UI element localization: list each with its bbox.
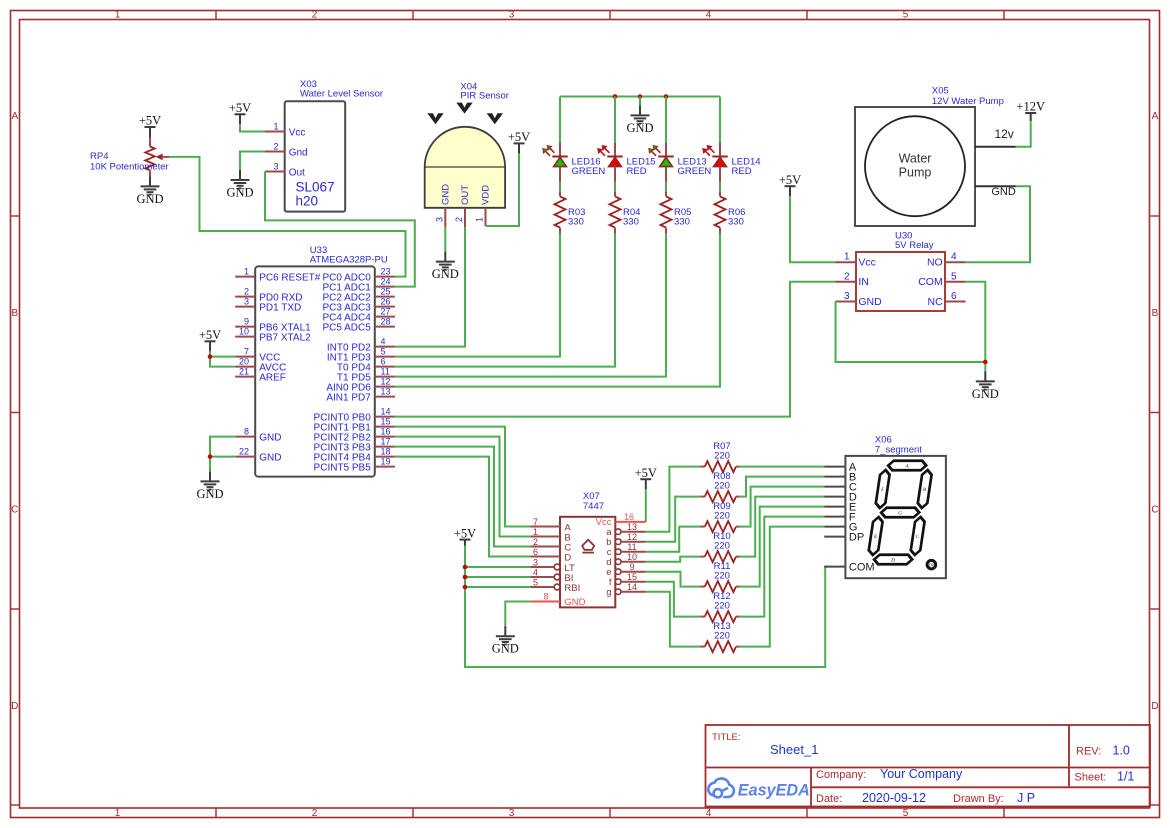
svg-text:8: 8 — [244, 427, 249, 437]
wire — [966, 186, 1030, 262]
wire — [1016, 121, 1031, 147]
resistor R04 330 — [610, 191, 641, 234]
display X06 7_segment — [824, 435, 946, 579]
decimal point (X06) — [927, 560, 936, 569]
svg-text:7447: 7447 — [583, 501, 604, 512]
svg-text:GND: GND — [259, 452, 281, 463]
svg-text:OUT: OUT — [460, 185, 471, 205]
wire — [646, 572, 701, 587]
svg-text:4: 4 — [381, 337, 386, 347]
wire — [790, 196, 836, 262]
junction — [208, 454, 213, 459]
svg-text:19: 19 — [381, 457, 391, 467]
svg-text:10: 10 — [627, 552, 637, 562]
svg-text:NO: NO — [927, 257, 943, 269]
relay U30 5V Relay — [836, 231, 966, 312]
wire — [465, 546, 828, 667]
svg-text:220: 220 — [714, 451, 730, 462]
svg-text:7: 7 — [533, 517, 538, 527]
svg-text:6: 6 — [951, 291, 957, 302]
svg-text:REV:: REV: — [1076, 746, 1101, 758]
svg-text:15: 15 — [627, 572, 637, 582]
ground (RP4) — [136, 176, 163, 206]
svg-text:3: 3 — [509, 10, 515, 21]
svg-text:+5V: +5V — [508, 130, 530, 144]
svg-text:1/1: 1/1 — [1117, 770, 1134, 784]
svg-text:220: 220 — [714, 481, 730, 492]
wire — [395, 437, 530, 537]
ground (U30) — [972, 371, 999, 401]
svg-text:GND: GND — [564, 597, 585, 608]
svg-text:5V Relay: 5V Relay — [895, 240, 934, 251]
sensor X03 Water Level Sensor — [265, 79, 383, 212]
svg-text:GND: GND — [858, 296, 882, 308]
wire — [486, 153, 520, 226]
svg-text:PCINT5 PB5: PCINT5 PB5 — [314, 462, 372, 473]
svg-text:C: C — [11, 504, 18, 515]
svg-text:COM: COM — [849, 561, 875, 573]
svg-text:D: D — [11, 701, 18, 712]
svg-text:PD1 TXD: PD1 TXD — [259, 302, 301, 313]
svg-text:220: 220 — [714, 631, 730, 642]
svg-text:3: 3 — [509, 808, 515, 819]
svg-text:GREEN: GREEN — [678, 166, 712, 177]
wire — [646, 497, 701, 542]
svg-text:4: 4 — [951, 252, 957, 263]
svg-text:3: 3 — [244, 297, 249, 307]
svg-text:10: 10 — [239, 327, 249, 337]
svg-text:10K Potentiometer: 10K Potentiometer — [90, 161, 169, 172]
svg-text:1.0: 1.0 — [1113, 744, 1130, 758]
wire — [740, 527, 824, 647]
wire — [265, 172, 415, 287]
svg-text:2: 2 — [273, 142, 278, 152]
svg-text:26: 26 — [381, 297, 391, 307]
svg-text:AIN1 PD7: AIN1 PD7 — [326, 392, 371, 403]
wire — [665, 182, 667, 191]
svg-text:11: 11 — [627, 542, 636, 552]
svg-text:6: 6 — [533, 547, 538, 557]
svg-text:1: 1 — [533, 527, 538, 537]
svg-text:IN: IN — [858, 276, 869, 288]
wire — [559, 97, 561, 143]
junction — [983, 360, 988, 365]
svg-text:1: 1 — [115, 808, 121, 819]
svg-text:21: 21 — [239, 367, 249, 377]
svg-text:330: 330 — [623, 217, 639, 228]
sensor X04 PIR Sensor — [425, 81, 509, 228]
svg-text:20: 20 — [239, 357, 249, 367]
svg-text:7_segment: 7_segment — [875, 444, 922, 455]
svg-text:GND: GND — [196, 487, 223, 501]
wire — [719, 182, 721, 191]
wire — [646, 557, 701, 562]
svg-text:1: 1 — [244, 267, 249, 277]
EasyEDA logo — [708, 778, 809, 799]
wire — [395, 234, 666, 377]
LED LED14 RED — [703, 142, 761, 182]
wire — [395, 447, 530, 547]
svg-text:C: C — [1151, 504, 1158, 515]
wire — [646, 592, 701, 647]
wire — [395, 427, 530, 527]
svg-text:PC6 RESET#: PC6 RESET# — [259, 272, 321, 283]
svg-text:RED: RED — [732, 166, 752, 177]
svg-text:18: 18 — [381, 447, 391, 457]
svg-text:8: 8 — [543, 592, 548, 602]
junction — [463, 575, 468, 580]
svg-text:1: 1 — [115, 10, 121, 21]
svg-text:23: 23 — [381, 267, 391, 277]
svg-text:16: 16 — [381, 427, 391, 437]
pin 13 a (X07) — [615, 529, 621, 535]
junction — [208, 354, 213, 359]
svg-text:3: 3 — [273, 162, 278, 172]
pin 8 GND (X07) — [530, 601, 560, 603]
power +5V (LT/BI/RBI bus) — [454, 526, 476, 546]
svg-text:COM: COM — [918, 276, 943, 288]
svg-text:NC: NC — [928, 296, 944, 308]
svg-text:PIR Sensor: PIR Sensor — [460, 90, 509, 101]
svg-text:TITLE:: TITLE: — [712, 732, 741, 743]
wire — [465, 576, 530, 578]
wire — [614, 97, 616, 143]
svg-text:12: 12 — [627, 532, 637, 542]
ground (LED bus) — [626, 105, 653, 134]
svg-text:Out: Out — [289, 167, 305, 178]
pin 10 d (X07) — [615, 559, 621, 565]
svg-text:EasyEDA: EasyEDA — [738, 782, 810, 800]
svg-text:Drawn By:: Drawn By: — [953, 793, 1004, 805]
wire — [966, 282, 986, 372]
wire — [836, 302, 986, 363]
svg-text:Gnd: Gnd — [289, 147, 308, 158]
wire — [646, 527, 701, 552]
power +5V (X03) — [229, 101, 251, 124]
wire — [210, 357, 235, 367]
svg-text:3: 3 — [533, 558, 538, 568]
svg-text:B: B — [1152, 308, 1159, 319]
svg-text:3: 3 — [844, 291, 850, 302]
IC U33 ATMEGA328P-PU — [235, 245, 395, 477]
svg-text:RP4: RP4 — [90, 151, 108, 162]
svg-text:24: 24 — [381, 277, 391, 287]
svg-text:17: 17 — [381, 437, 391, 447]
wire — [210, 456, 235, 458]
svg-text:VDD: VDD — [481, 185, 492, 205]
svg-text:5: 5 — [903, 808, 909, 819]
svg-text:DP: DP — [929, 563, 935, 568]
pin 9 e (X07) — [615, 569, 621, 575]
svg-text:+5V: +5V — [229, 101, 251, 115]
svg-text:h20: h20 — [296, 194, 319, 209]
svg-text:220: 220 — [714, 541, 730, 552]
svg-text:+5V: +5V — [635, 466, 657, 480]
svg-text:3: 3 — [435, 217, 445, 222]
svg-text:16: 16 — [624, 512, 634, 522]
resistor R07 220 — [700, 441, 740, 472]
svg-text:GND: GND — [626, 121, 653, 135]
svg-text:14: 14 — [627, 582, 637, 592]
ground (X07) — [492, 626, 519, 656]
svg-text:6: 6 — [381, 357, 386, 367]
wire — [740, 517, 824, 617]
wire — [444, 228, 446, 252]
svg-text:J P: J P — [1017, 791, 1035, 805]
power +5V (X07 Vcc) — [635, 466, 657, 489]
wire — [505, 602, 530, 627]
svg-text:12v: 12v — [994, 127, 1013, 141]
svg-text:AREF: AREF — [259, 372, 286, 383]
wire — [740, 466, 824, 468]
wire — [646, 582, 701, 617]
wire — [719, 97, 721, 143]
resistor R13 220 — [700, 621, 740, 652]
svg-text:27: 27 — [381, 307, 391, 317]
svg-text:7: 7 — [244, 347, 249, 357]
svg-text:Date:: Date: — [816, 793, 842, 805]
svg-text:X05: X05 — [932, 85, 949, 96]
svg-text:RED: RED — [627, 166, 647, 177]
svg-text:D: D — [564, 552, 571, 563]
wire — [465, 566, 530, 568]
wire — [646, 467, 701, 532]
svg-text:5: 5 — [903, 10, 909, 21]
wire — [665, 97, 667, 143]
power +5V (RP4) — [139, 114, 161, 137]
wire — [210, 351, 235, 356]
svg-text:B: B — [11, 308, 18, 319]
svg-text:9: 9 — [629, 562, 634, 572]
junction — [638, 94, 643, 99]
wire — [240, 152, 265, 171]
LED LED13 GREEN — [649, 142, 712, 182]
svg-text:+5V: +5V — [454, 526, 476, 540]
svg-text:220: 220 — [714, 601, 730, 612]
svg-text:12V Water Pump: 12V Water Pump — [932, 96, 1004, 107]
svg-text:DP: DP — [849, 531, 864, 543]
pin 16 Vcc (X07) — [615, 521, 646, 523]
svg-text:D: D — [1151, 701, 1158, 712]
resistor R06 330 — [715, 191, 746, 234]
resistor R09 220 — [700, 501, 740, 532]
pin 15 f (X07) — [615, 579, 621, 585]
svg-text:220: 220 — [714, 511, 730, 522]
svg-text:Water Level Sensor: Water Level Sensor — [300, 88, 383, 99]
resistor R08 220 — [700, 471, 740, 502]
svg-text:2: 2 — [454, 217, 464, 222]
svg-text:13: 13 — [627, 522, 637, 532]
svg-text:+12V: +12V — [1016, 100, 1045, 114]
wire — [645, 489, 647, 522]
svg-text:GND: GND — [432, 267, 459, 281]
pin 11 c (X07) — [615, 549, 621, 555]
svg-text:28: 28 — [381, 317, 391, 327]
wire — [559, 182, 561, 191]
resistor R03 330 — [555, 191, 586, 234]
svg-text:GND: GND — [226, 186, 253, 200]
wire — [395, 234, 720, 387]
7-segment digit glyph (X06) — [867, 461, 934, 565]
wire — [614, 182, 616, 191]
LED LED16 GREEN — [543, 142, 606, 182]
wire — [465, 586, 530, 588]
junction — [463, 585, 468, 590]
decoration (X07 symbol) — [582, 540, 594, 550]
svg-text:A: A — [11, 111, 18, 122]
pin 12 b (X07) — [615, 539, 621, 545]
resistor R11 220 — [700, 561, 740, 592]
power +5V (U33) — [199, 328, 221, 351]
wire — [210, 437, 235, 472]
motor X05 12V Water Pump — [855, 85, 1016, 226]
wire — [395, 234, 615, 367]
svg-text:14: 14 — [381, 407, 391, 417]
pin 14 g (X07) — [615, 589, 621, 595]
svg-text:1: 1 — [273, 122, 278, 132]
svg-text:RBI: RBI — [564, 583, 580, 594]
svg-text:GND: GND — [991, 186, 1016, 198]
svg-text:Vcc: Vcc — [289, 127, 306, 138]
svg-text:Company:: Company: — [816, 769, 866, 781]
svg-text:Pump: Pump — [899, 166, 932, 180]
svg-text:330: 330 — [728, 217, 744, 228]
svg-text:2: 2 — [244, 287, 249, 297]
svg-text:PC5 ADC5: PC5 ADC5 — [322, 322, 371, 333]
svg-text:+5V: +5V — [199, 328, 221, 342]
svg-text:GND: GND — [492, 642, 519, 656]
resistor R10 220 — [700, 531, 740, 562]
svg-text:g: g — [606, 587, 611, 598]
resistor R05 330 — [661, 191, 692, 234]
wire — [395, 234, 560, 357]
svg-text:Your Company: Your Company — [880, 767, 963, 781]
wire — [395, 457, 530, 557]
resistor R12 220 — [700, 591, 740, 622]
svg-text:4: 4 — [706, 808, 712, 819]
svg-text:GND: GND — [136, 192, 163, 206]
svg-text:2: 2 — [844, 271, 850, 282]
svg-text:2: 2 — [533, 537, 538, 547]
power +12V — [1016, 100, 1045, 121]
pin GND (X05) — [975, 185, 1016, 187]
wire — [639, 97, 641, 106]
svg-text:SL067: SL067 — [296, 180, 335, 195]
svg-text:330: 330 — [674, 217, 690, 228]
svg-text:2: 2 — [312, 10, 318, 21]
svg-text:220: 220 — [714, 571, 730, 582]
wire — [169, 157, 405, 277]
svg-text:22: 22 — [239, 447, 249, 457]
svg-text:4: 4 — [533, 568, 538, 578]
svg-text:11: 11 — [381, 367, 390, 377]
junction — [664, 94, 669, 99]
ground (X03) — [226, 170, 253, 200]
svg-text:12: 12 — [381, 377, 391, 387]
wire — [395, 228, 465, 347]
svg-text:GREEN: GREEN — [572, 166, 606, 177]
pin 12v (X05) — [975, 146, 1016, 148]
svg-text:2020-09-12: 2020-09-12 — [862, 791, 926, 805]
svg-text:A: A — [1152, 111, 1159, 122]
svg-text:+5V: +5V — [139, 114, 161, 128]
junction — [613, 94, 618, 99]
svg-text:2: 2 — [312, 808, 318, 819]
wire — [560, 96, 720, 98]
svg-text:Sheet:: Sheet: — [1075, 772, 1107, 784]
svg-text:5: 5 — [381, 347, 386, 357]
wire — [740, 507, 824, 587]
svg-text:ATMEGA328P-PU: ATMEGA328P-PU — [310, 255, 388, 266]
svg-text:5: 5 — [951, 271, 957, 282]
svg-text:GND: GND — [259, 432, 281, 443]
wire — [740, 497, 824, 557]
svg-text:9: 9 — [244, 317, 249, 327]
potentiometer RP4 — [90, 137, 169, 176]
svg-text:GND: GND — [441, 184, 452, 205]
wire — [740, 477, 824, 497]
power +5V (X04) — [508, 130, 530, 153]
svg-text:PB7 XTAL2: PB7 XTAL2 — [259, 332, 311, 343]
svg-text:+5V: +5V — [779, 173, 801, 187]
svg-text:Water: Water — [899, 152, 932, 166]
svg-text:15: 15 — [381, 417, 391, 427]
svg-text:4: 4 — [706, 10, 712, 21]
ground (U33) — [196, 471, 223, 501]
svg-text:13: 13 — [381, 387, 391, 397]
junction — [463, 565, 468, 570]
power +5V (U30) — [779, 173, 801, 196]
ground (X04) — [432, 252, 459, 282]
wire — [395, 282, 836, 417]
wire — [740, 487, 824, 527]
svg-text:25: 25 — [381, 287, 391, 297]
title block — [706, 725, 1151, 807]
IC X07 7447 — [530, 491, 646, 608]
LED LED15 RED — [598, 142, 656, 182]
svg-text:5: 5 — [533, 578, 538, 588]
wire — [240, 124, 265, 131]
svg-text:1: 1 — [844, 252, 850, 263]
svg-text:1: 1 — [475, 217, 485, 222]
svg-text:Vcc: Vcc — [858, 257, 876, 269]
svg-text:GND: GND — [972, 387, 999, 401]
svg-text:Sheet_1: Sheet_1 — [770, 742, 818, 757]
svg-text:330: 330 — [568, 217, 584, 228]
